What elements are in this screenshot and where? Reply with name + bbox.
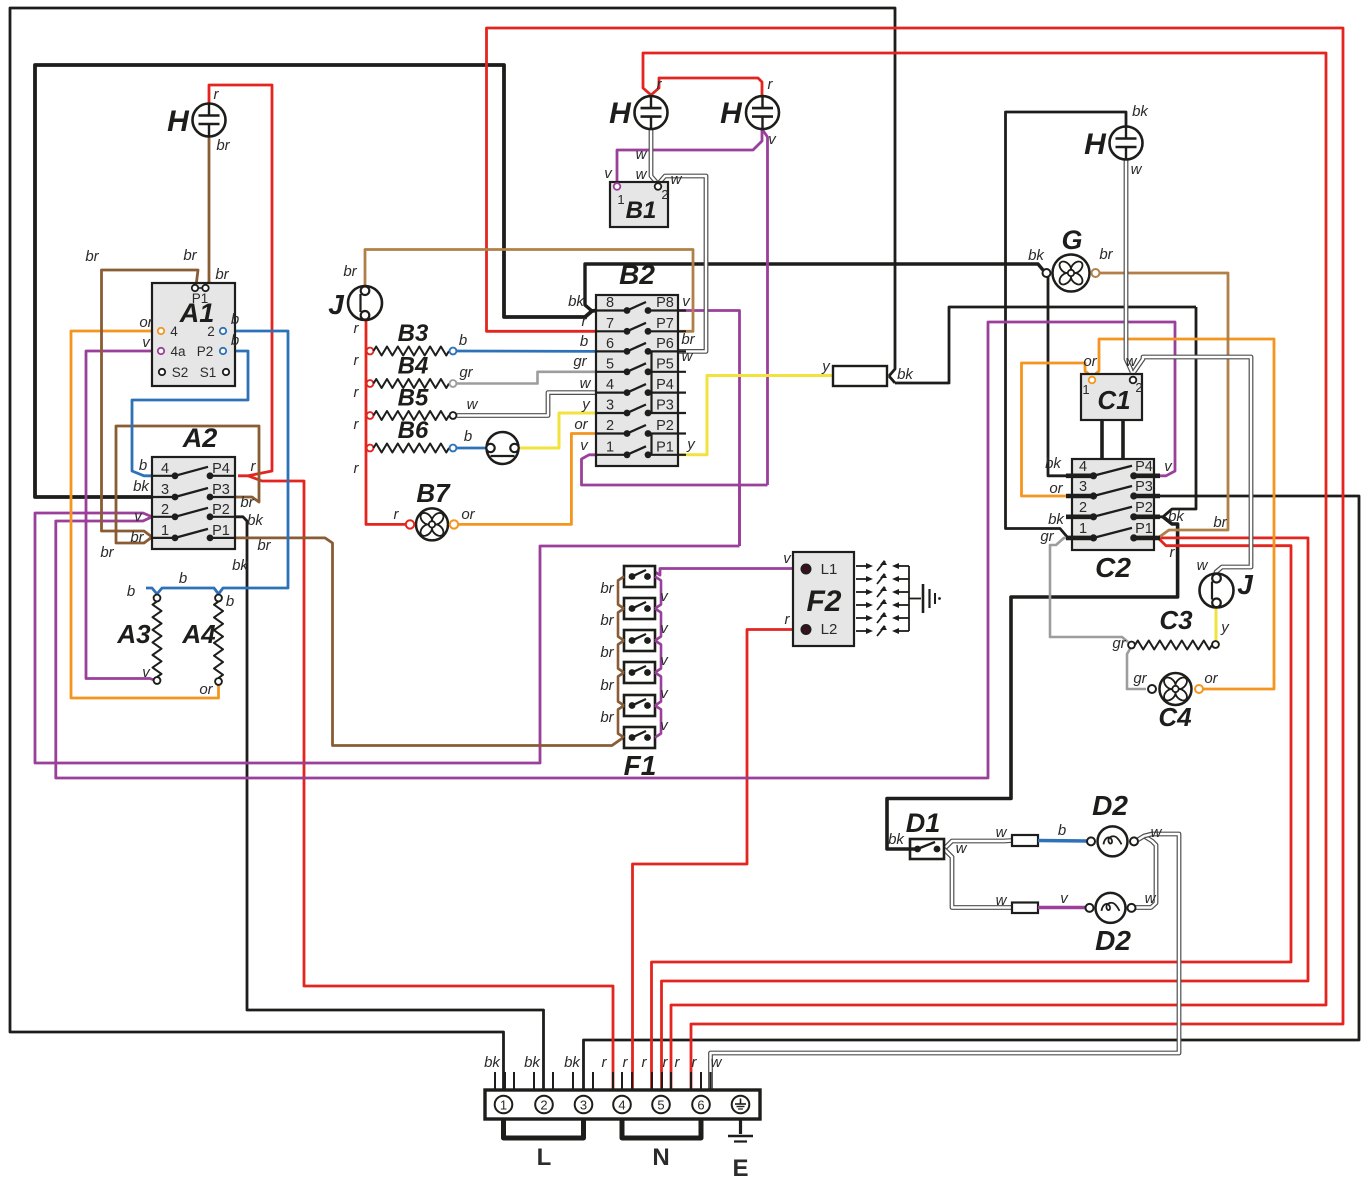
wire r C2-P1 to terminal 5 (b)	[662, 538, 1309, 1090]
label w B1 a	[636, 166, 648, 183]
label B1	[626, 197, 657, 224]
label bk G	[1028, 247, 1045, 264]
label w H4	[1131, 161, 1143, 178]
wire or A1-4 to A4-bottom	[71, 331, 219, 698]
label w D2a	[1151, 824, 1163, 841]
lamp H1	[167, 104, 225, 139]
svg-text:P5: P5	[656, 356, 674, 372]
pin 4 A1	[158, 324, 178, 339]
svg-text:D2: D2	[1095, 925, 1131, 956]
label v C2-P4	[1164, 458, 1173, 475]
label w J2	[1197, 557, 1209, 574]
label v A3	[142, 664, 151, 681]
wire w D2a to D2b merge	[1135, 836, 1157, 908]
fan C4	[1148, 673, 1203, 732]
wire r J to B3-B6 to B7	[366, 316, 406, 525]
svg-text:b: b	[231, 311, 239, 328]
svg-text:or: or	[1204, 670, 1218, 687]
wire r F2-L2 to terminal 4b	[633, 630, 807, 1091]
label y B2-3	[581, 396, 591, 413]
label w boxb	[996, 892, 1008, 909]
pin 1 B1	[614, 183, 625, 207]
svg-text:w: w	[636, 166, 648, 183]
svg-text:G: G	[1061, 225, 1082, 255]
pin L1 F2	[801, 561, 837, 578]
labels r terminals	[602, 1054, 698, 1071]
label v H3	[768, 131, 777, 148]
label w B2-4	[580, 375, 592, 392]
label bk inline	[897, 366, 914, 383]
wire v A1-4a to A3-bottom	[86, 351, 157, 680]
svg-text:B6: B6	[398, 417, 429, 444]
wire br G to C2-P1	[1096, 273, 1229, 538]
wire y B6-lamp to B2-pin3	[519, 413, 597, 448]
wire v F1 to F2-L1	[655, 569, 806, 576]
resistor A3	[116, 595, 161, 684]
svg-text:1: 1	[617, 192, 624, 207]
label D2a	[1092, 790, 1128, 821]
svg-text:1: 1	[161, 523, 169, 539]
svg-text:gr: gr	[1040, 528, 1054, 545]
label gr C2-1b	[1040, 528, 1054, 545]
label br B2-P6	[681, 331, 695, 348]
label br A2 below	[100, 544, 114, 561]
svg-text:P8: P8	[656, 295, 674, 311]
svg-text:br: br	[215, 266, 229, 283]
label b A4	[226, 593, 234, 610]
label B6	[398, 417, 429, 444]
svg-text:4: 4	[161, 461, 169, 477]
wire w H2 to B1-2	[651, 129, 657, 183]
wire r A2-P4 to terminal 4	[248, 476, 613, 1090]
svg-text:3: 3	[606, 398, 614, 414]
svg-text:B3: B3	[398, 320, 429, 347]
svg-text:8: 8	[606, 295, 614, 311]
label v B2-1	[580, 437, 589, 454]
svg-text:b: b	[580, 333, 588, 350]
labels v F1	[660, 588, 669, 734]
svg-text:w: w	[636, 146, 648, 163]
label w D2b	[1145, 890, 1157, 907]
label r H1	[214, 86, 220, 103]
pin P2 A1	[197, 344, 226, 359]
svg-text:A2: A2	[182, 423, 218, 453]
pin 4a A1	[158, 344, 186, 359]
svg-text:w: w	[956, 840, 968, 857]
svg-text:P6: P6	[656, 336, 674, 352]
svg-text:or: or	[1049, 480, 1063, 497]
svg-text:br: br	[600, 677, 614, 694]
block B1	[610, 182, 668, 227]
wire w J2 to C1-2	[1134, 357, 1251, 578]
label B4	[398, 353, 429, 380]
svg-text:1: 1	[500, 1098, 507, 1113]
svg-text:P2: P2	[212, 502, 230, 518]
wire v B1-1 to H3	[617, 128, 762, 187]
label b A1-2	[231, 311, 239, 328]
svg-text:br: br	[600, 580, 614, 597]
svg-text:b: b	[179, 570, 187, 587]
svg-text:P3: P3	[212, 482, 230, 498]
ground E	[728, 1119, 753, 1182]
wire bk B2-pin8 chevron to G	[585, 264, 1043, 311]
wire br J to B2-P7	[365, 250, 693, 332]
svg-text:w: w	[996, 892, 1008, 909]
svg-text:w: w	[1197, 557, 1209, 574]
resistor C3	[1128, 605, 1219, 650]
svg-text:bk: bk	[568, 293, 585, 310]
svg-text:P3: P3	[656, 398, 674, 414]
wire v box to D2b	[1038, 906, 1087, 909]
svg-text:5: 5	[657, 1098, 664, 1113]
svg-text:b: b	[226, 593, 234, 610]
label b D2a	[1058, 822, 1066, 839]
resistors B3-B6 bodies	[367, 347, 457, 453]
label bk D1	[888, 831, 905, 848]
label bk C2-4	[1045, 455, 1062, 472]
svg-text:6: 6	[697, 1098, 704, 1113]
svg-text:b: b	[464, 428, 472, 445]
label v A1	[142, 334, 151, 351]
wire gr C3 to C4	[1127, 649, 1146, 689]
igniter F2 spark gaps and chassis ground	[856, 560, 941, 636]
svg-text:P3: P3	[1135, 479, 1153, 495]
svg-text:7: 7	[606, 316, 614, 332]
svg-text:N: N	[652, 1144, 669, 1171]
label br C2-P1	[1213, 514, 1227, 531]
inline box D-a	[1012, 835, 1038, 846]
svg-text:w: w	[1145, 890, 1157, 907]
svg-text:bk: bk	[888, 831, 905, 848]
wire v H3 down	[762, 129, 768, 485]
svg-text:w: w	[580, 375, 592, 392]
label b A1-P2	[231, 332, 239, 349]
svg-text:5: 5	[606, 356, 614, 372]
inline box D-b	[1012, 903, 1038, 914]
svg-text:bk: bk	[232, 557, 249, 574]
svg-text:2: 2	[1079, 500, 1087, 516]
svg-text:B1: B1	[626, 197, 657, 224]
wire bk G to C2-pin4	[1048, 277, 1072, 476]
svg-text:gr: gr	[459, 364, 473, 381]
svg-text:br: br	[600, 612, 614, 629]
wire b B6 to lamp	[457, 447, 487, 450]
svg-text:4: 4	[618, 1098, 625, 1113]
svg-text:A4: A4	[181, 619, 216, 649]
label y B2-P1	[686, 436, 696, 453]
svg-text:bk: bk	[564, 1054, 581, 1071]
wire bk C2-P3 to terminal 3	[584, 496, 1360, 1090]
label br A1 right	[215, 266, 229, 283]
label v A2-2	[134, 508, 143, 525]
block C1	[1081, 374, 1142, 420]
svg-text:P2: P2	[656, 418, 674, 434]
label w C1	[1126, 353, 1138, 370]
pin S2 A1	[159, 365, 188, 380]
wire v B2-pin1 to junction	[582, 455, 768, 485]
label gr B4	[459, 364, 473, 381]
svg-text:br: br	[1213, 514, 1227, 531]
wire w D1 to box1	[944, 841, 1012, 850]
wire br A1-P1 to A2-pin1	[102, 270, 199, 537]
svg-text:br: br	[216, 137, 230, 154]
svg-text:S2: S2	[172, 365, 189, 380]
wire br A2-P3 loop to pin1	[116, 426, 259, 543]
label w B5	[467, 396, 479, 413]
svg-text:C1: C1	[1097, 385, 1130, 415]
label bk B2-8	[568, 293, 585, 310]
block A2	[152, 457, 235, 549]
label A2	[182, 423, 218, 453]
svg-text:P1: P1	[212, 523, 230, 539]
label b A2-4	[139, 457, 147, 474]
svg-text:w: w	[711, 1054, 723, 1071]
svg-text:br: br	[100, 544, 114, 561]
svg-text:w: w	[467, 396, 479, 413]
svg-text:1: 1	[1082, 382, 1089, 397]
pin L2 F2	[801, 621, 837, 638]
label gr C3	[1112, 635, 1126, 652]
label bk H4	[1132, 103, 1149, 120]
svg-text:br: br	[343, 263, 357, 280]
svg-text:or: or	[139, 314, 153, 331]
wire w D2a to terminal gnd	[711, 834, 1180, 1090]
lamp B6 indicator	[486, 432, 518, 464]
wire gr C2-pin1 to C3	[1050, 538, 1128, 642]
wire bk A2-pin3 to B2-pin8	[35, 65, 596, 497]
label v D2b	[1060, 890, 1069, 907]
wire y B2-P1 to inline box	[678, 376, 833, 455]
svg-text:bk: bk	[484, 1054, 501, 1071]
svg-text:L1: L1	[821, 561, 838, 578]
label br A2-P3	[240, 494, 254, 511]
wire br H1 to A1-P1	[205, 137, 209, 287]
label br A1 mid	[183, 247, 197, 264]
svg-text:P4: P4	[212, 461, 230, 477]
lamp J1	[328, 286, 382, 320]
wire bk H4 to C2-pin1	[1006, 112, 1127, 538]
label bk A2-3	[133, 478, 150, 495]
wire b box to D2a	[1038, 839, 1088, 843]
svg-text:gr: gr	[1133, 670, 1147, 687]
label D2b	[1095, 925, 1131, 956]
wire r C2-P1 to terminal 5 (a)	[652, 538, 1292, 1090]
label br A2-1	[130, 529, 144, 546]
svg-text:P4: P4	[1135, 459, 1153, 475]
wire or C1-1 to C4	[1092, 339, 1274, 689]
svg-text:bk: bk	[247, 512, 264, 529]
label or A1	[139, 314, 153, 331]
inline box y-bk	[833, 366, 887, 386]
svg-text:or: or	[1083, 353, 1097, 370]
svg-text:b: b	[127, 583, 135, 600]
label r H3	[768, 76, 774, 93]
label w D1	[956, 840, 968, 857]
label v B2-P8	[682, 293, 691, 310]
wire bk C2-P2 to D1	[887, 517, 1178, 849]
svg-text:br: br	[130, 529, 144, 546]
label r B2-7	[582, 313, 588, 330]
lamp H3	[720, 96, 779, 130]
wire v A2-pin2 run b to C2-P4	[56, 322, 1175, 778]
label or A4	[199, 681, 213, 698]
wire r H2-H3 to terminal 5 (c)	[643, 53, 1326, 1090]
switch bank F1	[618, 566, 661, 748]
label F1	[624, 750, 657, 781]
label gr C4	[1133, 670, 1147, 687]
label w boxa	[996, 824, 1008, 841]
label b B6	[464, 428, 472, 445]
svg-text:P7: P7	[656, 316, 674, 332]
label r A2-P4	[251, 458, 257, 475]
svg-text:3: 3	[1079, 479, 1087, 495]
svg-text:2: 2	[207, 324, 215, 339]
label v B1	[604, 165, 613, 182]
svg-text:J: J	[1237, 569, 1254, 600]
label b B2-6	[580, 333, 588, 350]
fan B7	[406, 478, 458, 540]
label y J2	[1220, 619, 1230, 636]
svg-text:bk: bk	[1168, 508, 1185, 525]
svg-text:br: br	[85, 248, 99, 265]
labels br F1	[600, 580, 614, 726]
svg-text:P1: P1	[656, 439, 674, 455]
label B5	[398, 385, 429, 412]
svg-text:br: br	[257, 537, 271, 554]
svg-text:w: w	[996, 824, 1008, 841]
pin 2 A1	[207, 324, 226, 339]
svg-text:bk: bk	[1028, 247, 1045, 264]
label r H2	[657, 76, 663, 93]
wire w B1-2 to B2-P6	[659, 176, 706, 351]
label w terminal	[711, 1054, 723, 1071]
labels bk terminals	[484, 1054, 581, 1071]
switch rows B2	[596, 295, 686, 458]
pin 2 C1	[1130, 377, 1143, 395]
svg-text:br: br	[681, 331, 695, 348]
terminal ticks	[495, 1072, 711, 1090]
wire v B2-P8 down	[678, 311, 740, 547]
svg-text:w: w	[1131, 161, 1143, 178]
wire bk L-net: C2-P2 to terminal 1 big loop	[10, 8, 1196, 1090]
wire w B5 to B2-pin4	[457, 393, 596, 416]
wire br A2-P1 to F1 bottom	[235, 538, 624, 746]
svg-text:2: 2	[1135, 380, 1142, 395]
wire b A1-P2 to A2-pin4	[132, 351, 248, 476]
svg-text:bk: bk	[133, 478, 150, 495]
lamp D2a	[1087, 826, 1138, 856]
terminals P1 A1	[192, 285, 209, 306]
label bk C2-P2	[1168, 508, 1185, 525]
svg-text:br: br	[600, 709, 614, 726]
svg-text:gr: gr	[573, 353, 587, 370]
terminal block body	[485, 1090, 760, 1119]
svg-text:L: L	[537, 1144, 552, 1171]
pin S1 A1	[200, 365, 229, 380]
svg-text:E: E	[732, 1155, 748, 1182]
label or C4	[1204, 670, 1218, 687]
svg-text:6: 6	[606, 336, 614, 352]
svg-text:2: 2	[540, 1098, 547, 1113]
switch rows C2	[1066, 459, 1160, 542]
svg-text:H: H	[167, 105, 190, 138]
svg-text:P2: P2	[197, 344, 214, 359]
label B2	[619, 259, 655, 290]
label or B2-2	[574, 416, 588, 433]
bracket L	[504, 1119, 584, 1171]
resistor A4	[181, 595, 223, 685]
terminal circles 1-6	[495, 1096, 710, 1114]
svg-text:D2: D2	[1092, 790, 1128, 821]
svg-text:gr: gr	[1112, 635, 1126, 652]
label br A2-P1	[257, 537, 271, 554]
label r C2-P1	[1170, 544, 1176, 561]
svg-text:C4: C4	[1158, 702, 1192, 732]
label C2	[1095, 552, 1131, 583]
label F2	[806, 585, 841, 618]
wire or B2-pin2 to B7	[457, 434, 597, 525]
label C1	[1097, 385, 1130, 415]
svg-text:w: w	[682, 348, 694, 365]
svg-text:4: 4	[1079, 459, 1087, 475]
switch rows A2	[152, 461, 235, 542]
svg-text:C3: C3	[1159, 605, 1193, 635]
label br A1 left	[85, 248, 99, 265]
svg-text:A3: A3	[116, 619, 151, 649]
label or B7	[461, 506, 475, 523]
wire r B2-pin7 to terminal 6	[487, 28, 1344, 1090]
label r B7	[394, 506, 400, 523]
svg-text:J: J	[328, 289, 345, 320]
label y inline	[821, 358, 831, 375]
wire v A2-pin2 run a (y763)	[35, 513, 740, 763]
svg-text:w: w	[1151, 824, 1163, 841]
pin 2 B1	[655, 183, 669, 202]
label w B2-P6	[682, 348, 694, 365]
wire w H4 to C1-2	[1126, 160, 1132, 373]
svg-text:B5: B5	[398, 385, 429, 412]
label bk C2-1a	[1048, 511, 1065, 528]
svg-text:b: b	[1058, 822, 1066, 839]
switch D1	[910, 839, 944, 859]
svg-text:4a: 4a	[170, 344, 186, 359]
svg-text:2: 2	[161, 502, 169, 518]
svg-text:P1: P1	[1135, 521, 1153, 537]
label bk A2-P2	[247, 512, 264, 529]
lamp H4	[1084, 127, 1142, 162]
wire w D1 to box2	[944, 849, 1012, 908]
svg-text:2: 2	[661, 187, 668, 202]
svg-text:br: br	[1099, 246, 1113, 263]
svg-text:bk: bk	[524, 1054, 541, 1071]
lamp J2	[1200, 569, 1255, 608]
label or C2-3	[1049, 480, 1063, 497]
svg-text:bk: bk	[1132, 103, 1149, 120]
lamp D2b	[1086, 893, 1136, 923]
svg-text:bk: bk	[1048, 511, 1065, 528]
svg-text:b: b	[231, 332, 239, 349]
svg-text:P2: P2	[1135, 500, 1153, 516]
label or C1	[1083, 353, 1097, 370]
label B3	[398, 320, 429, 347]
block C2	[1072, 459, 1154, 550]
label bk A2 below	[232, 557, 249, 574]
svg-text:4: 4	[170, 324, 178, 339]
svg-text:B4: B4	[398, 353, 429, 380]
svg-text:P4: P4	[656, 377, 674, 393]
svg-text:H: H	[720, 97, 743, 130]
wire v junction link	[738, 485, 741, 546]
